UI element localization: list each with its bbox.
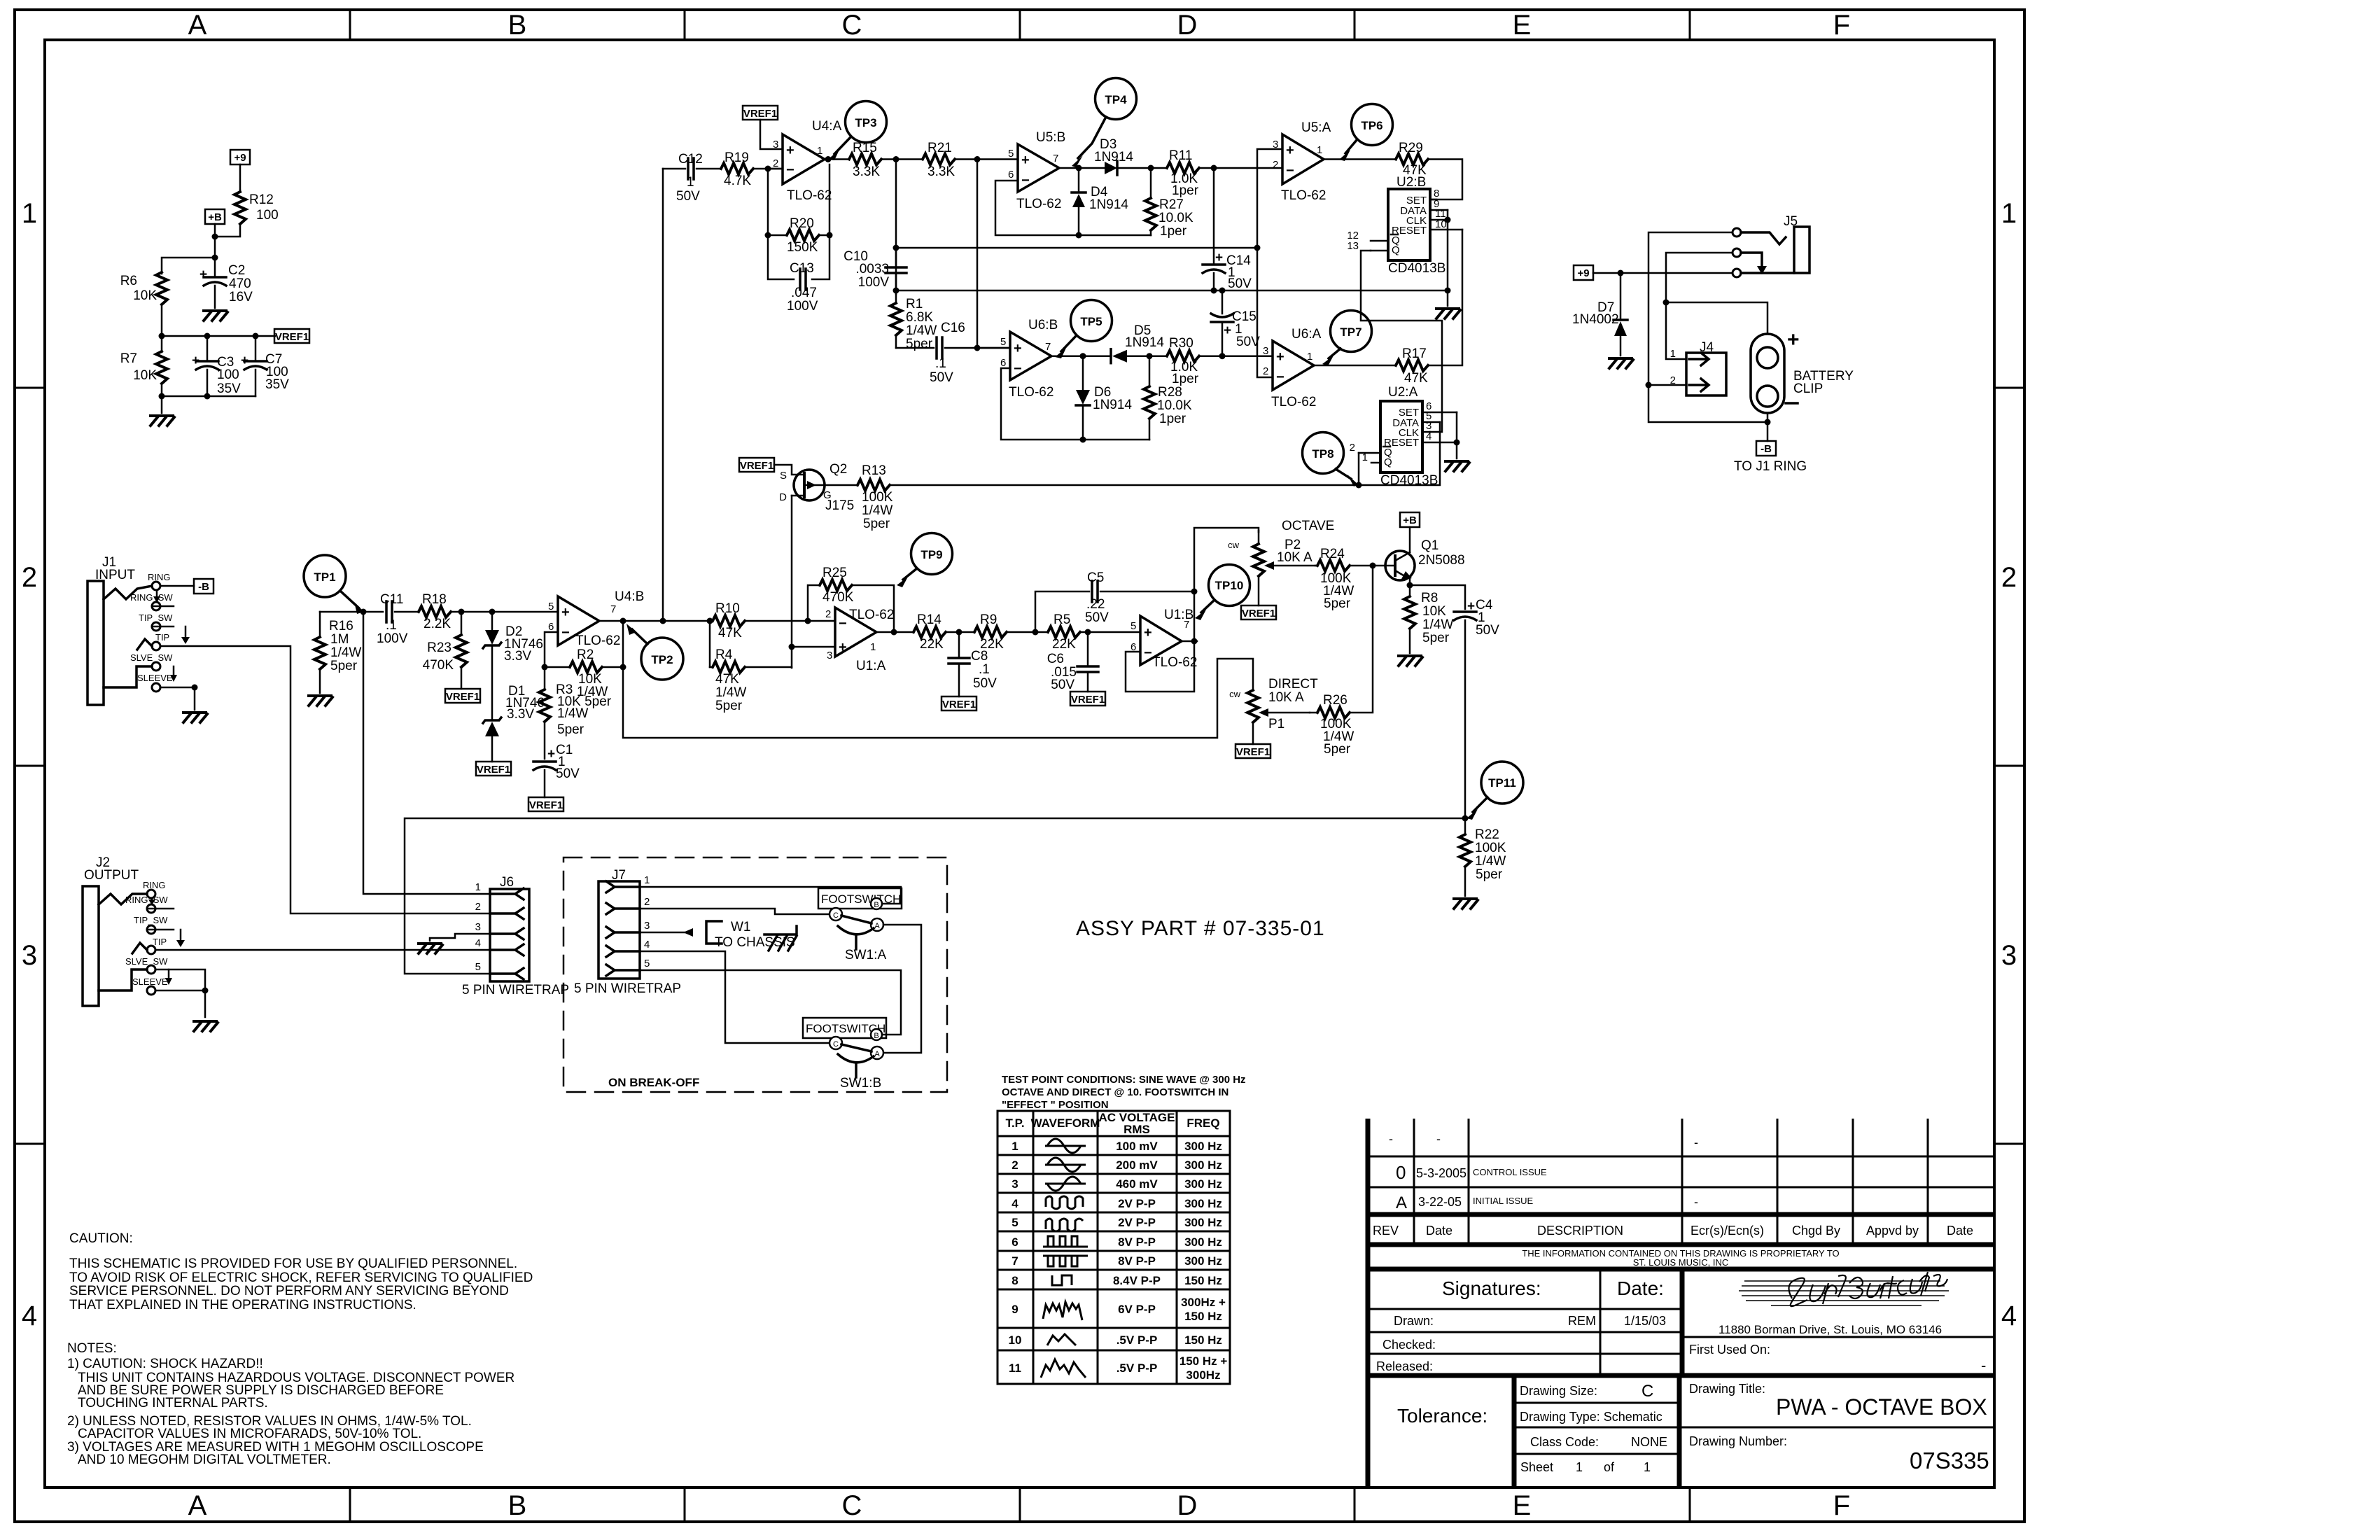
svg-text:150 Hz: 150 Hz: [1184, 1274, 1222, 1287]
feedback resistor R25: [808, 566, 894, 632]
svg-text:C12: C12: [678, 152, 703, 167]
svg-text:VREF1: VREF1: [446, 691, 479, 703]
svg-text:5per: 5per: [330, 659, 358, 673]
svg-text:100V: 100V: [787, 299, 818, 314]
resistor R15: [849, 141, 923, 179]
resistor R21: [923, 141, 1018, 179]
svg-text:1/4W: 1/4W: [906, 323, 937, 338]
svg-text:Appvd by: Appvd by: [1866, 1224, 1919, 1238]
svg-text:5per: 5per: [1422, 631, 1450, 645]
svg-text:C: C: [833, 1040, 839, 1049]
wire C4 down to R22 node: [1462, 815, 1469, 822]
wire C16 branch vertical: [976, 160, 979, 349]
wire J7 pin5 to SW1:B B: [640, 970, 901, 1035]
svg-text:+: +: [1014, 341, 1022, 356]
wire ring node to battery plus: [1666, 302, 1767, 334]
svg-text:5per: 5per: [557, 722, 584, 737]
resistor R9: [974, 612, 1048, 652]
svg-text:200 mV: 200 mV: [1116, 1158, 1158, 1172]
svg-text:Drawing Type: Schematic: Drawing Type: Schematic: [1520, 1410, 1662, 1424]
svg-text:W1: W1: [731, 920, 751, 934]
resistor R5: [1048, 612, 1140, 652]
svg-text:R28: R28: [1158, 385, 1182, 400]
svg-text:VREF1: VREF1: [477, 764, 510, 776]
svg-text:−: −: [1286, 163, 1294, 178]
svg-text:35V: 35V: [217, 381, 241, 396]
svg-text:TP3: TP3: [855, 116, 876, 129]
svg-text:300 Hz: 300 Hz: [1184, 1140, 1222, 1153]
output node U4:A: [825, 156, 849, 162]
svg-text:1: 1: [1576, 1460, 1583, 1474]
svg-text:100: 100: [256, 208, 279, 223]
wire J7 pin1 to footswitch B: [640, 887, 901, 904]
capacitor C16: [896, 321, 1010, 385]
svg-text:Q1: Q1: [1421, 538, 1438, 553]
svg-text:OCTAVE: OCTAVE: [1282, 519, 1334, 533]
border inner frame: [45, 40, 1994, 1487]
svg-text:2N5088: 2N5088: [1418, 553, 1465, 568]
svg-text:Drawing Number:: Drawing Number:: [1689, 1434, 1787, 1448]
svg-text:5 PIN WIRETRAP: 5 PIN WIRETRAP: [574, 981, 681, 996]
svg-text:5: 5: [475, 961, 481, 973]
flip-flop U2:A: [1350, 385, 1457, 488]
svg-text:Drawing Title:: Drawing Title:: [1689, 1382, 1765, 1396]
svg-text:-: -: [1694, 1195, 1698, 1209]
waveform row10 triangles: [1047, 1334, 1076, 1345]
svg-text:−: −: [786, 162, 794, 178]
svg-text:+: +: [786, 143, 794, 158]
wire long rail to J6 pin5: [405, 818, 1465, 974]
drawing info block: [1514, 1375, 1994, 1487]
transistor Q2 JFET: [779, 462, 854, 513]
svg-text:5-3-2005: 5-3-2005: [1416, 1166, 1466, 1180]
svg-text:R19: R19: [724, 150, 749, 165]
svg-text:6.8K: 6.8K: [906, 310, 933, 325]
svg-text:5per: 5per: [1476, 867, 1503, 882]
svg-text:−: −: [1144, 645, 1152, 661]
resistor R10: [710, 601, 835, 640]
svg-text:5per: 5per: [906, 337, 933, 351]
svg-text:C5: C5: [1087, 570, 1104, 585]
resistor R4: [710, 621, 792, 713]
svg-text:TO AVOID RISK OF ELECTRIC SHOC: TO AVOID RISK OF ELECTRIC SHOCK, REFER S…: [69, 1270, 533, 1285]
svg-text:6: 6: [1008, 169, 1014, 181]
svg-text:Date: Date: [1426, 1224, 1452, 1238]
svg-text:1: 1: [817, 145, 822, 157]
svg-text:TLO-62: TLO-62: [1016, 197, 1061, 211]
svg-text:.0033: .0033: [855, 262, 889, 276]
svg-text:TLO-62: TLO-62: [575, 633, 620, 648]
svg-text:8V P-P: 8V P-P: [1118, 1254, 1156, 1268]
diode D3: [1094, 137, 1151, 175]
net label VREF1: [941, 696, 976, 710]
ground: [1399, 656, 1422, 666]
svg-text:+: +: [1144, 625, 1152, 640]
svg-text:3.3V: 3.3V: [507, 707, 534, 722]
wire J7 pin2 to SW1:A C: [640, 909, 829, 914]
svg-text:2: 2: [475, 901, 481, 913]
wire R13 to U2:A Qbar rail: [890, 484, 1359, 486]
svg-text:10K A: 10K A: [1268, 690, 1304, 705]
svg-text:2: 2: [773, 157, 778, 169]
connector J5: [1732, 214, 1809, 277]
net label VREF1: [476, 762, 511, 776]
waveform row4 rounded square: [1046, 1196, 1083, 1209]
svg-text:-B: -B: [1760, 443, 1772, 455]
net label VREF1: [445, 689, 480, 703]
svg-text:300 Hz: 300 Hz: [1184, 1158, 1222, 1172]
test point TP7: [1322, 311, 1372, 367]
capacitor C6: [1047, 632, 1098, 692]
svg-text:RING: RING: [143, 880, 166, 890]
svg-text:.1: .1: [935, 356, 946, 371]
resistor R1: [890, 290, 937, 351]
svg-text:SLVE_SW: SLVE_SW: [130, 652, 173, 663]
svg-text:Date: Date: [1947, 1224, 1973, 1238]
svg-text:+: +: [1286, 143, 1294, 158]
svg-text:11: 11: [1009, 1361, 1021, 1375]
svg-text:5per: 5per: [1324, 742, 1351, 757]
wire Q1 collector to +B: [1409, 527, 1411, 552]
resistor R20: [787, 216, 819, 255]
test point TP2: [626, 624, 683, 680]
svg-text:CONTROL ISSUE: CONTROL ISSUE: [1473, 1167, 1547, 1177]
svg-text:1/4W: 1/4W: [862, 503, 892, 518]
wire SET6 RESET4 to ground: [1456, 412, 1458, 442]
waveform row3 sine inverted: [1045, 1177, 1086, 1191]
test point TP8: [1303, 433, 1359, 487]
svg-text:Drawn:: Drawn:: [1394, 1314, 1434, 1328]
net label VREF1: [1235, 744, 1270, 758]
svg-text:TP2: TP2: [651, 653, 673, 666]
svg-text:C16: C16: [941, 321, 965, 335]
svg-text:TP7: TP7: [1340, 325, 1361, 339]
svg-text:+: +: [561, 605, 570, 620]
svg-text:150 Hz: 150 Hz: [1184, 1333, 1222, 1347]
svg-text:R23: R23: [427, 640, 451, 655]
svg-text:+: +: [839, 640, 847, 655]
svg-text:4: 4: [2001, 1301, 2017, 1331]
node pin2 U4:A: [765, 166, 771, 172]
svg-text:CD4013B: CD4013B: [1388, 261, 1445, 276]
revision table: [1368, 1119, 1994, 1487]
svg-text:D: D: [779, 491, 787, 503]
svg-text:R17: R17: [1402, 346, 1427, 361]
svg-text:Checked:: Checked:: [1382, 1338, 1436, 1352]
svg-text:RING_SW: RING_SW: [125, 895, 168, 905]
resistor R26: [1310, 693, 1354, 757]
svg-text:1N914: 1N914: [1093, 398, 1132, 412]
svg-text:R25: R25: [822, 566, 847, 580]
svg-text:A: A: [874, 1050, 880, 1058]
svg-text:−: −: [1014, 361, 1022, 377]
svg-text:R6: R6: [120, 274, 137, 288]
svg-text:1: 1: [1317, 144, 1322, 156]
svg-text:+: +: [1215, 251, 1223, 265]
connector J2 OUTPUT: [83, 855, 185, 1006]
svg-text:T.P.: T.P.: [1005, 1116, 1024, 1130]
resistor R3: [539, 667, 612, 759]
svg-text:2: 2: [644, 896, 650, 908]
wire U2:B Q13 to U2:A CLK3: [1361, 251, 1442, 432]
svg-text:R2: R2: [577, 647, 594, 662]
svg-text:2: 2: [1273, 159, 1278, 171]
node: [212, 234, 218, 240]
resistor R13: [825, 463, 893, 531]
battery clip: [1751, 328, 1854, 413]
ground: [1445, 461, 1469, 471]
svg-text:-B: -B: [198, 581, 209, 593]
capacitor C2: [199, 258, 253, 308]
resistor R18: [419, 592, 558, 631]
resistor R16: [314, 612, 361, 693]
svg-text:TIP: TIP: [153, 937, 167, 947]
svg-text:460 mV: 460 mV: [1116, 1177, 1158, 1191]
wire input node: [320, 611, 383, 613]
resistor R7: [120, 336, 167, 396]
resistor R22: [1459, 818, 1506, 896]
svg-text:2.2K: 2.2K: [423, 617, 451, 631]
svg-text:+: +: [199, 267, 207, 282]
svg-text:5per: 5per: [715, 699, 743, 713]
svg-text:+: +: [1224, 323, 1231, 338]
svg-text:CLIP: CLIP: [1793, 381, 1823, 396]
svg-text:.1: .1: [386, 618, 397, 633]
svg-text:10K: 10K: [1422, 604, 1446, 619]
resistor R24: [1315, 547, 1385, 611]
svg-text:−: −: [839, 616, 847, 631]
diode D7: [1572, 273, 1627, 356]
svg-text:2: 2: [1350, 442, 1355, 454]
svg-text:NOTES:: NOTES:: [67, 1341, 117, 1356]
svg-text:300 Hz: 300 Hz: [1184, 1216, 1222, 1229]
wire J2 slve_sw to sleeve node: [155, 969, 205, 990]
svg-text:7: 7: [610, 603, 616, 615]
svg-text:+: +: [1021, 153, 1030, 168]
diode D5: [1111, 323, 1164, 363]
test point TP1: [304, 555, 364, 614]
wire U5:B output: [1059, 165, 1105, 171]
svg-text:VREF1: VREF1: [942, 699, 976, 710]
svg-text:−: −: [1276, 370, 1284, 385]
power symbol +B: [205, 209, 225, 237]
wire R24 node down to R26: [1350, 566, 1373, 713]
connector J4: [1670, 340, 1726, 395]
power symbol +B: [1400, 512, 1420, 527]
svg-text:B: B: [508, 1490, 527, 1521]
svg-text:10K: 10K: [133, 288, 157, 303]
resistor R27: [1145, 168, 1193, 239]
svg-text:OUTPUT: OUTPUT: [84, 868, 139, 883]
wire CLK node to ground: [1447, 290, 1449, 306]
svg-text:CAUTION:: CAUTION:: [69, 1231, 133, 1246]
svg-text:C6: C6: [1047, 652, 1064, 666]
wire U5:A pin2 to U6:A pin2 vertical: [1257, 248, 1273, 377]
svg-text:10: 10: [1009, 1333, 1022, 1347]
svg-text:Q: Q: [1384, 456, 1392, 468]
svg-text:-: -: [1436, 1132, 1441, 1146]
svg-text:4.7K: 4.7K: [724, 174, 751, 188]
svg-text:150K: 150K: [787, 240, 818, 255]
connector J1 INPUT: [87, 555, 190, 705]
svg-text:TLO-62: TLO-62: [787, 188, 832, 203]
node: [893, 156, 899, 162]
svg-text:5per: 5per: [863, 517, 890, 531]
svg-text:1/4W: 1/4W: [1475, 854, 1506, 869]
svg-text:300 Hz: 300 Hz: [1184, 1235, 1222, 1249]
svg-text:C: C: [842, 1490, 862, 1521]
svg-text:VREF1: VREF1: [740, 460, 773, 472]
svg-text:1N914: 1N914: [1125, 335, 1164, 350]
svg-text:1: 1: [1644, 1460, 1651, 1474]
svg-text:TP11: TP11: [1488, 776, 1516, 790]
svg-text:D: D: [1177, 1490, 1198, 1521]
svg-text:SLEEVE: SLEEVE: [132, 976, 168, 987]
svg-text:Sheet: Sheet: [1520, 1460, 1553, 1474]
wire oscillator node vertical: [895, 160, 897, 295]
footswitch SW1:A: [818, 888, 902, 962]
svg-text:+B: +B: [208, 211, 222, 223]
svg-text:A: A: [874, 922, 880, 930]
test point TP5: [1055, 300, 1112, 359]
svg-text:-: -: [1694, 1135, 1698, 1149]
op-amp U1:B: [1130, 608, 1197, 670]
svg-text:300 Hz: 300 Hz: [1184, 1197, 1222, 1210]
svg-text:+: +: [192, 353, 199, 368]
resistor R28: [1144, 356, 1192, 440]
svg-text:2: 2: [825, 608, 831, 620]
svg-text:1N914: 1N914: [1094, 150, 1133, 164]
diode D4: [1072, 168, 1128, 235]
svg-text:Q: Q: [1392, 244, 1400, 256]
svg-text:of: of: [1604, 1460, 1615, 1474]
wire Qbar2 down to rail: [1358, 453, 1360, 485]
potentiometer P1 DIRECT: [1229, 677, 1318, 744]
svg-text:50V: 50V: [556, 766, 580, 781]
svg-text:VREF1: VREF1: [1071, 694, 1105, 706]
wire J1 tip down to J6 pin2: [160, 646, 490, 913]
svg-text:4: 4: [22, 1301, 37, 1331]
svg-text:.22: .22: [1086, 597, 1105, 612]
svg-text:470K: 470K: [423, 658, 454, 673]
svg-text:300 Hz: 300 Hz: [1184, 1177, 1222, 1191]
SLM Electronics logo: [1739, 1272, 1949, 1306]
svg-text:TLO-62: TLO-62: [1271, 395, 1316, 409]
capacitor C4: [1454, 598, 1499, 818]
svg-text:U5:A: U5:A: [1301, 120, 1331, 135]
capacitor C8: [948, 632, 997, 696]
op-amp U6:B: [977, 318, 1058, 400]
wire J5 tip to J4 pin2 and battery minus: [1648, 232, 1765, 422]
svg-text:10K A: 10K A: [1277, 550, 1312, 565]
wire J2 tip to J6 pin4: [155, 949, 490, 951]
ground: [204, 311, 227, 321]
svg-text:R4: R4: [715, 647, 733, 662]
svg-text:6: 6: [1000, 357, 1006, 369]
svg-text:TIP_SW: TIP_SW: [139, 612, 173, 623]
svg-text:U4:B: U4:B: [615, 589, 644, 604]
svg-text:TP9: TP9: [920, 548, 942, 561]
svg-text:R26: R26: [1323, 693, 1347, 708]
svg-text:1: 1: [870, 641, 876, 653]
test point TP9: [897, 533, 953, 588]
svg-text:FREQ: FREQ: [1186, 1116, 1219, 1130]
svg-text:REM: REM: [1568, 1314, 1596, 1328]
wire U1:B output up to P2: [1182, 528, 1259, 641]
svg-text:ON BREAK-OFF: ON BREAK-OFF: [608, 1076, 699, 1089]
test point TP10: [1195, 565, 1250, 621]
svg-text:Class Code:: Class Code:: [1530, 1435, 1599, 1449]
svg-text:5: 5: [1000, 336, 1006, 348]
svg-text:1: 1: [1011, 1140, 1018, 1153]
ground: [1454, 899, 1478, 909]
svg-text:150 Hz: 150 Hz: [1184, 1310, 1222, 1323]
svg-text:SW1:B: SW1:B: [840, 1076, 881, 1091]
node: [974, 156, 981, 162]
svg-text:.5V P-P: .5V P-P: [1116, 1333, 1158, 1347]
ground: [150, 416, 174, 426]
svg-text:R29: R29: [1399, 141, 1423, 155]
wire DATA to CLK: [1447, 210, 1449, 290]
svg-text:AND 10 MEGOHM DIGITAL VOLTMETE: AND 10 MEGOHM DIGITAL VOLTMETER.: [78, 1452, 331, 1467]
svg-text:1/15/03: 1/15/03: [1624, 1314, 1666, 1328]
svg-text:100V: 100V: [858, 275, 890, 290]
svg-text:E: E: [1513, 1490, 1532, 1521]
svg-text:5: 5: [548, 601, 554, 612]
wire U4:B pin6 feedback: [545, 632, 558, 667]
table grid: [997, 1111, 1230, 1384]
waveform row5 rounded square: [1046, 1219, 1083, 1231]
wire SW1:A A to SW1:B A: [883, 925, 921, 1053]
svg-text:2V P-P: 2V P-P: [1118, 1197, 1156, 1210]
svg-text:R20: R20: [790, 216, 814, 231]
svg-text:TP6: TP6: [1361, 119, 1382, 132]
op-amp U4:A: [768, 119, 842, 203]
svg-text:Released:: Released:: [1376, 1359, 1433, 1373]
svg-text:1: 1: [1362, 451, 1368, 463]
svg-text:7: 7: [1045, 341, 1051, 353]
capacitor C5: [1035, 570, 1194, 632]
wire: [239, 164, 241, 190]
svg-text:7: 7: [1011, 1254, 1018, 1268]
svg-text:TIP_SW: TIP_SW: [134, 915, 168, 925]
wire J4 pin2 stub: [1648, 384, 1686, 386]
svg-text:OCTAVE AND DIRECT @ 10. FOOTSW: OCTAVE AND DIRECT @ 10. FOOTSWITCH IN: [1002, 1086, 1228, 1098]
svg-text:1M: 1M: [330, 632, 349, 647]
svg-text:50V: 50V: [1476, 623, 1499, 638]
svg-text:300 Hz: 300 Hz: [1184, 1254, 1222, 1268]
svg-text:INITIAL ISSUE: INITIAL ISSUE: [1473, 1196, 1534, 1206]
svg-text:47K: 47K: [718, 626, 742, 640]
svg-text:U4:A: U4:A: [812, 119, 842, 134]
waveform row1 sine: [1045, 1139, 1086, 1153]
svg-text:3.3K: 3.3K: [853, 164, 880, 179]
diode D2 zener: [483, 612, 543, 720]
svg-text:4: 4: [475, 937, 481, 949]
wire R2 right to output node: [622, 621, 624, 667]
svg-text:1per: 1per: [1160, 224, 1187, 239]
svg-text:C: C: [1641, 1382, 1653, 1401]
svg-text:50V: 50V: [1085, 610, 1109, 625]
svg-text:Signatures:: Signatures:: [1442, 1277, 1541, 1299]
wire U1:A pin3: [792, 646, 835, 648]
svg-text:R22: R22: [1475, 827, 1499, 842]
svg-text:47K: 47K: [715, 672, 739, 687]
svg-text:+: +: [1787, 328, 1800, 351]
svg-text:300Hz +: 300Hz +: [1181, 1296, 1226, 1309]
svg-text:4: 4: [644, 939, 650, 951]
wire U5:A pin3: [1257, 149, 1282, 248]
